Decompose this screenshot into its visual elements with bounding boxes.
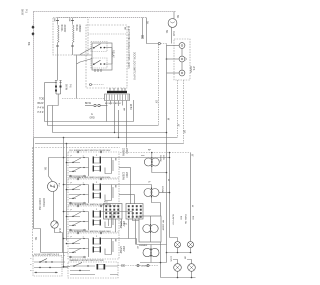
svg-text:TOD: TOD <box>39 98 44 101</box>
label RELAY <box>111 50 114 58</box>
svg-text:SIMMER: SIMMER <box>139 245 148 247</box>
label ERC column <box>127 26 130 69</box>
svg-text:OVEN ON: OVEN ON <box>184 214 186 225</box>
bake element coil <box>73 18 75 50</box>
element4 center wire <box>150 245 152 263</box>
junction line y252 <box>167 252 191 254</box>
svg-text:240V: 240V <box>122 221 124 227</box>
svg-text:BK: BK <box>114 185 116 188</box>
connector drop W <box>110 101 112 105</box>
label BK conv <box>44 167 47 171</box>
wire oven box drop to bottom bus <box>160 242 162 278</box>
wire stub x142 <box>142 18 144 39</box>
svg-text:IND: IND <box>192 216 194 220</box>
svg-text:MOTOR: MOTOR <box>42 198 45 207</box>
grid connector block A <box>104 204 123 220</box>
svg-text:3400W: 3400W <box>63 25 66 33</box>
svg-text:BK: BK <box>124 27 126 30</box>
coil top labels <box>53 19 70 22</box>
pin mark x142 <box>141 36 144 38</box>
bus wire y137 <box>34 137 178 139</box>
svg-text:DLM: DLM <box>172 31 175 36</box>
dashed feeder y152 <box>120 152 191 154</box>
DLB motor circle <box>51 221 58 228</box>
label DLB <box>58 228 60 233</box>
svg-text:1250W: 1250W <box>119 221 121 229</box>
svg-text:IND: IND <box>179 216 181 220</box>
wire x158 lamp feed drop <box>158 44 160 125</box>
TOD fuse cluster <box>55 81 62 95</box>
bus wire y132 <box>53 132 167 134</box>
svg-text:BK: BK <box>165 30 168 34</box>
wire lamp1 feed x169.5 <box>170 153 178 242</box>
bottom run pins <box>122 264 149 267</box>
wire K2 output <box>105 48 112 64</box>
wire ground dashed left <box>62 98 105 100</box>
svg-text:GRD: GRD <box>90 118 95 120</box>
wire main vertical x166 <box>166 45 168 253</box>
svg-text:RR 1250W: RR 1250W <box>161 220 163 230</box>
harness connector bar <box>107 91 127 93</box>
label oven element <box>139 220 163 247</box>
label BK inner <box>124 27 126 30</box>
unit2 taps <box>64 185 70 190</box>
wire motor bottom drop <box>171 27 173 43</box>
svg-text:240V: 240V <box>125 148 128 154</box>
label x158 drop <box>154 100 168 121</box>
junction element2 out <box>169 192 171 194</box>
left front element <box>144 189 159 197</box>
wire K1 output <box>105 47 112 49</box>
label W element2 out <box>167 179 169 182</box>
junction element1 top <box>151 152 153 154</box>
indicator lamp lock <box>174 264 182 272</box>
connector drop Y <box>118 101 120 138</box>
svg-text:CONV FAN: CONV FAN <box>38 198 41 210</box>
wire broil bottom drop <box>57 48 59 81</box>
label W right <box>190 154 193 208</box>
label BK motor wire <box>165 30 175 36</box>
wire TOD drop <box>45 83 59 126</box>
broil pin marks <box>56 21 59 47</box>
svg-text:BK/W: BK/W <box>21 9 24 16</box>
wire DLB drop <box>55 228 63 252</box>
label hot surface ind <box>172 214 182 226</box>
unit2 lower exit <box>119 194 135 196</box>
junction dots y252 <box>166 252 192 254</box>
label TOD block <box>38 98 45 115</box>
oven element box (dashed) <box>53 18 88 56</box>
svg-text:BK: BK <box>68 19 70 22</box>
plug P1 on L1 line <box>32 26 34 36</box>
label element3 side <box>119 221 124 229</box>
svg-text:BR: BR <box>183 130 186 134</box>
label grid blocks <box>104 202 128 226</box>
junction x169.5 taps <box>169 152 171 159</box>
motor inner marks <box>170 22 175 24</box>
lamp clean stubs <box>187 260 192 278</box>
svg-text:LR: LR <box>136 246 138 249</box>
bus wire y143 <box>35 143 184 145</box>
label oven on ind <box>184 214 193 225</box>
label DLM <box>176 15 179 19</box>
switch bank dashed border <box>33 148 121 256</box>
relay contact K1 <box>91 42 107 52</box>
pin P6 on ERC left <box>90 84 92 86</box>
wire dashed y84.5 <box>92 84 104 86</box>
junction oven drop <box>160 262 162 264</box>
door lock switch box <box>29 254 62 276</box>
svg-text:W: W <box>191 205 193 208</box>
label lower lamps <box>169 256 185 262</box>
svg-text:L.R. SURFACE UNIT SWITCH 1250W: L.R. SURFACE UNIT SWITCH 1250W 240V <box>70 230 112 233</box>
svg-text:SURF HOT: SURF HOT <box>172 214 174 226</box>
svg-text:2: 2 <box>29 264 31 266</box>
K2 pin marks below <box>95 69 101 72</box>
label fuse right <box>65 84 71 91</box>
door lock motor circle <box>168 19 177 28</box>
wire x190 right drop <box>190 153 192 242</box>
junction bus y132 <box>166 132 168 134</box>
wire TOD link drop <box>52 106 54 133</box>
svg-text:ELECTRONIC RANGE CONTROL (ERC): ELECTRONIC RANGE CONTROL (ERC) <box>127 26 130 69</box>
label conv fan motor <box>38 198 45 210</box>
connector drop R <box>114 101 116 133</box>
svg-text:L.F. SURFACE UNIT SWITCH 1250W: L.F. SURFACE UNIT SWITCH 1250W 240V <box>70 176 111 179</box>
left rear element <box>143 248 159 256</box>
wire unit3 to box <box>119 212 139 221</box>
harness pins up <box>110 88 125 91</box>
wire L1 staircase to bottom <box>34 138 69 253</box>
feeder wire x66 <box>66 144 68 241</box>
svg-text:P11: P11 <box>124 224 128 226</box>
wire lock motor drop x133 <box>133 100 135 122</box>
oven element box <box>139 216 161 242</box>
wire diagonal to relay K2 <box>77 56 93 99</box>
svg-text:1: 1 <box>29 258 31 260</box>
svg-text:W: W <box>167 179 169 182</box>
svg-text:2: 2 <box>96 209 98 211</box>
feeder wire x63 <box>63 138 65 269</box>
lamp B arrow <box>185 58 187 61</box>
door lock switch exits <box>56 262 68 268</box>
wire lamp box tails dashed x177 <box>177 80 179 138</box>
svg-text:BK: BK <box>114 239 116 242</box>
wire corner x146 to lamp feed <box>147 18 159 44</box>
junction lamp B <box>166 58 168 60</box>
harness housing pins <box>107 95 129 101</box>
svg-text:WARMING CENTER SWITCH 750W: WARMING CENTER SWITCH 750W <box>70 259 104 262</box>
svg-text:1250W: 1250W <box>161 186 163 193</box>
x166 tail to element4 line <box>166 253 168 263</box>
ERC inner dashed divider <box>88 33 127 35</box>
svg-text:W/BK: W/BK <box>129 104 131 110</box>
label broil 3400W <box>60 25 66 33</box>
svg-text:1250W: 1250W <box>121 172 124 181</box>
svg-text:BK: BK <box>44 167 47 171</box>
svg-text:BK: BK <box>114 158 116 161</box>
wire L1 top horizontal <box>34 11 177 13</box>
label P-2 conv <box>58 183 60 187</box>
label element1 <box>121 148 164 162</box>
label oven lights <box>189 66 195 73</box>
label L1 BK <box>145 21 148 25</box>
svg-text:LOCK: LOCK <box>169 256 171 262</box>
svg-text:G: G <box>91 114 93 116</box>
surface switch unit 2 <box>68 176 119 205</box>
label BK on L1 <box>27 42 31 46</box>
wire lamp B left <box>167 58 180 60</box>
wire L1 left vertical drop <box>33 12 35 138</box>
element1 center wire <box>151 152 153 170</box>
svg-text:BK/W: BK/W <box>38 103 45 105</box>
label ground wire <box>85 103 95 120</box>
relay box solid <box>92 43 112 70</box>
svg-text:P-1: P-1 <box>24 9 27 13</box>
svg-text:DOOR LOCK SWITCH P-8: DOOR LOCK SWITCH P-8 <box>133 52 135 80</box>
label door lock column <box>133 52 135 80</box>
svg-text:BK W R Y BR GY: BK W R Y BR GY <box>105 103 122 105</box>
label BK left edge <box>34 237 37 241</box>
node P1 labels <box>21 9 28 16</box>
connector drop BK <box>106 101 108 122</box>
oven lamp A <box>179 43 185 49</box>
unit3 taps <box>64 212 70 217</box>
wire x130 drop <box>130 168 132 205</box>
bake pin marks <box>71 21 74 47</box>
wire conv motor drop <box>53 191 55 221</box>
junction element1 out <box>166 172 168 174</box>
warm switch unit 5 <box>68 259 118 278</box>
label bake 2585W <box>75 25 81 33</box>
wire diagonal to relay K1 <box>80 48 93 55</box>
wire L2 horizontal <box>57 17 146 19</box>
label pin row <box>105 103 122 105</box>
svg-text:1250W: 1250W <box>141 266 148 268</box>
indicator lamp oven on <box>188 242 194 248</box>
svg-text:1250W: 1250W <box>119 246 121 254</box>
wire x134 drop <box>134 195 136 205</box>
wire lamp C left <box>167 72 180 74</box>
label element2 <box>121 172 163 193</box>
svg-text:P-5 R: P-5 R <box>38 112 44 114</box>
svg-text:BR: BR <box>122 108 124 111</box>
svg-text:LTS: LTS <box>192 66 195 71</box>
element2 terminal dots <box>151 188 152 198</box>
svg-text:240V: 240V <box>122 246 124 252</box>
unit1 lower exit <box>119 167 131 169</box>
wire unit2 to element2 <box>119 184 152 186</box>
surface switch unit 3 <box>68 203 119 232</box>
wire lamp A left <box>167 45 180 47</box>
label element4 side <box>119 246 124 254</box>
pin connector on lamp feed <box>158 42 160 44</box>
element2 bottom elbow <box>152 199 161 216</box>
svg-text:3: 3 <box>29 270 31 272</box>
svg-text:GY: GY <box>154 100 156 104</box>
wire lamp box tail dashed x183 <box>183 80 185 144</box>
svg-text:ON: ON <box>183 256 185 260</box>
element4 terminal dots <box>150 248 151 256</box>
indicator lamp hot surface <box>175 242 181 248</box>
label lock motor drop <box>129 104 131 110</box>
wire unit1 to element1 <box>119 156 170 158</box>
connector drop BR <box>122 101 124 106</box>
element4 bottom line <box>140 262 167 264</box>
wire TOD top <box>45 82 57 84</box>
label element4 <box>136 246 148 268</box>
surface switch unit 1 <box>68 149 119 178</box>
svg-text:P-4 W: P-4 W <box>38 108 45 110</box>
relay contact K2 <box>91 58 107 68</box>
right front element <box>144 158 159 166</box>
svg-text:2600W: 2600W <box>159 155 161 162</box>
oven lamp B <box>179 56 185 62</box>
svg-text:BK: BK <box>27 42 31 46</box>
svg-text:240V: 240V <box>125 172 128 178</box>
convection fan wire corner <box>49 158 64 182</box>
bus wire y126 <box>48 125 159 127</box>
svg-text:P-2: P-2 <box>58 183 60 187</box>
lamp lock stubs <box>173 260 178 278</box>
svg-text:R.F. SURFACE UNIT SWITCH 2350W: R.F. SURFACE UNIT SWITCH 2350W 240V <box>70 149 111 152</box>
bottom bus dots <box>177 277 193 279</box>
svg-text:2: 2 <box>96 236 98 238</box>
lamp bottom stubs <box>178 248 191 253</box>
svg-text:W: W <box>177 124 180 127</box>
wire bake bottom elbow <box>73 50 93 55</box>
grid connector block B <box>126 204 143 220</box>
label W tail <box>177 124 186 134</box>
grid block stubs <box>109 219 136 245</box>
element1 terminal dots <box>151 157 152 167</box>
indicator lamp clean <box>188 264 196 272</box>
element2 right wire <box>159 192 170 194</box>
svg-text:BK/W: BK/W <box>85 103 92 105</box>
surface switch unit 4 <box>68 230 119 259</box>
bus junctions <box>63 132 120 145</box>
unit1 taps <box>64 158 70 163</box>
wire lamp feed into box <box>161 44 167 46</box>
svg-text:120V: 120V <box>162 155 164 160</box>
svg-text:2585W: 2585W <box>78 25 81 33</box>
svg-text:P-6: P-6 <box>68 84 70 88</box>
unit5 tap <box>64 266 71 268</box>
svg-text:DOOR LOCK SWITCH P-9: DOOR LOCK SWITCH P-9 <box>34 254 60 256</box>
bus wire y121 <box>45 121 134 123</box>
motor top stub <box>173 12 175 20</box>
connector drop GY <box>126 101 128 148</box>
oven lamp C <box>179 70 185 76</box>
ERC control board dashed box <box>86 25 127 88</box>
element1 bottom elbow <box>152 170 167 173</box>
connector drop labels <box>122 108 124 111</box>
unit4 taps <box>64 239 70 244</box>
svg-text:RF: RF <box>148 150 152 152</box>
oven lamps dashed box <box>174 39 190 80</box>
svg-text:LF: LF <box>148 182 151 184</box>
svg-text:BK: BK <box>176 15 179 19</box>
convection fan motor <box>48 182 58 192</box>
plug pair on ground wire <box>85 104 108 106</box>
svg-text:2: 2 <box>96 155 98 157</box>
bottom bus y277.5 <box>161 277 196 279</box>
element2 center wire <box>151 185 153 200</box>
harness housing <box>105 94 130 101</box>
wire unit4 to element4 <box>119 239 167 245</box>
svg-text:2: 2 <box>96 182 98 184</box>
svg-text:BK/W: BK/W <box>65 84 67 91</box>
bottom dashed run <box>118 265 158 267</box>
broil element coil <box>58 18 60 48</box>
wire lamp series links <box>181 48 183 70</box>
svg-text:BK: BK <box>34 237 37 241</box>
